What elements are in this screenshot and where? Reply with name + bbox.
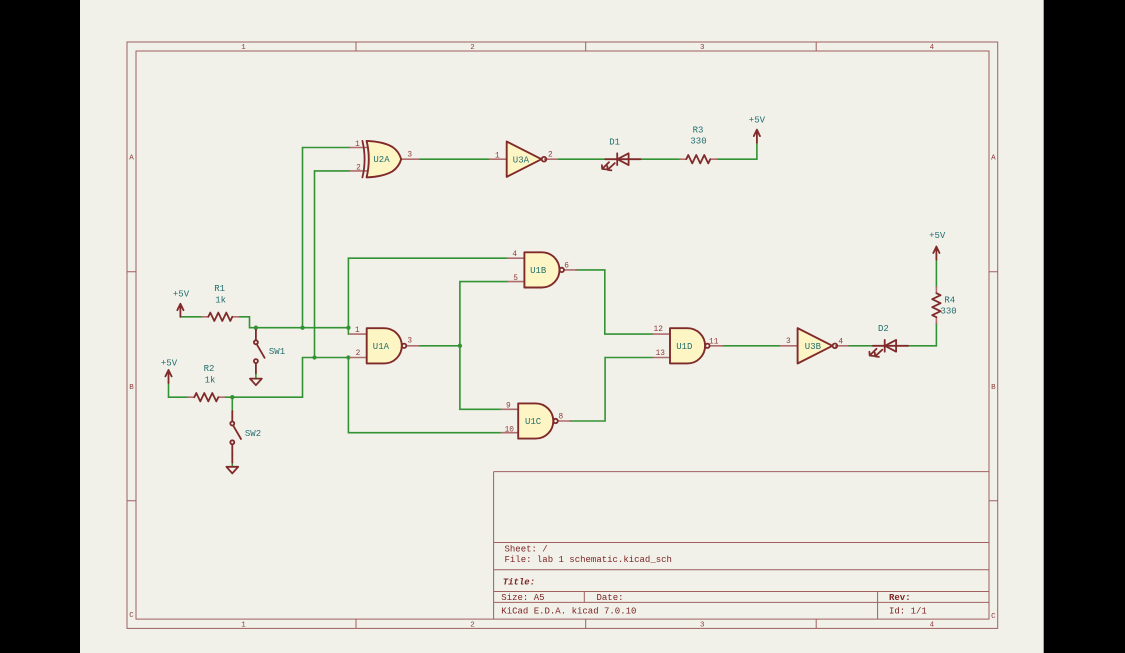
svg-text:B: B xyxy=(129,384,134,392)
svg-text:1: 1 xyxy=(241,622,246,630)
svg-text:U2A: U2A xyxy=(373,155,390,165)
svg-text:2: 2 xyxy=(356,350,361,358)
svg-text:3: 3 xyxy=(407,337,412,345)
svg-text:13: 13 xyxy=(656,350,666,358)
svg-text:D2: D2 xyxy=(878,324,889,334)
svg-text:2: 2 xyxy=(356,165,361,173)
svg-text:1: 1 xyxy=(241,44,246,52)
svg-text:R1: R1 xyxy=(214,284,225,294)
svg-text:3: 3 xyxy=(786,338,791,346)
svg-text:B: B xyxy=(991,384,996,392)
svg-text:+5V: +5V xyxy=(161,359,178,369)
svg-text:U1A: U1A xyxy=(373,342,390,352)
svg-text:1: 1 xyxy=(355,141,360,149)
svg-text:330: 330 xyxy=(690,137,706,147)
svg-text:4: 4 xyxy=(930,622,935,630)
svg-text:Size: A5: Size: A5 xyxy=(501,593,544,603)
svg-text:Date:: Date: xyxy=(597,593,624,603)
svg-text:11: 11 xyxy=(709,338,719,346)
svg-text:+5V: +5V xyxy=(929,231,946,241)
svg-text:U1C: U1C xyxy=(525,417,542,427)
svg-text:A: A xyxy=(991,155,996,163)
svg-text:+5V: +5V xyxy=(173,289,190,299)
svg-text:Id: 1/1: Id: 1/1 xyxy=(889,606,927,616)
svg-text:1k: 1k xyxy=(215,295,226,305)
svg-text:A: A xyxy=(129,155,134,163)
svg-text:330: 330 xyxy=(940,306,956,316)
svg-text:Sheet: /: Sheet: / xyxy=(505,545,548,555)
svg-text:R2: R2 xyxy=(204,364,215,374)
svg-text:2: 2 xyxy=(548,152,553,160)
svg-text:U3B: U3B xyxy=(805,342,822,352)
svg-text:1k: 1k xyxy=(205,376,216,386)
svg-text:9: 9 xyxy=(506,403,511,411)
svg-text:12: 12 xyxy=(654,326,664,334)
svg-text:4: 4 xyxy=(930,44,935,52)
svg-text:10: 10 xyxy=(505,426,515,434)
svg-text:C: C xyxy=(129,612,134,620)
svg-text:R3: R3 xyxy=(693,126,704,136)
svg-text:3: 3 xyxy=(700,622,705,630)
svg-text:+5V: +5V xyxy=(749,115,766,125)
svg-text:SW2: SW2 xyxy=(245,429,261,439)
svg-text:1: 1 xyxy=(495,153,500,161)
svg-text:4: 4 xyxy=(838,339,843,347)
svg-text:3: 3 xyxy=(407,151,412,159)
svg-text:D1: D1 xyxy=(609,138,620,148)
svg-text:U1B: U1B xyxy=(530,266,547,276)
svg-text:File: lab 1 schematic.kicad_sc: File: lab 1 schematic.kicad_sch xyxy=(505,555,672,565)
svg-text:6: 6 xyxy=(564,262,569,270)
svg-text:C: C xyxy=(991,613,996,621)
svg-text:U1D: U1D xyxy=(676,342,692,352)
svg-text:4: 4 xyxy=(512,251,517,259)
svg-text:Title:: Title: xyxy=(503,578,535,588)
svg-text:2: 2 xyxy=(470,44,475,52)
svg-text:2: 2 xyxy=(470,622,475,630)
svg-text:R4: R4 xyxy=(944,296,955,306)
svg-text:SW1: SW1 xyxy=(269,347,285,357)
svg-text:3: 3 xyxy=(700,44,705,52)
svg-text:U3A: U3A xyxy=(513,155,530,165)
svg-text:Rev:: Rev: xyxy=(889,593,911,603)
svg-text:1: 1 xyxy=(355,327,360,335)
svg-text:5: 5 xyxy=(513,275,518,283)
svg-text:8: 8 xyxy=(559,413,564,421)
